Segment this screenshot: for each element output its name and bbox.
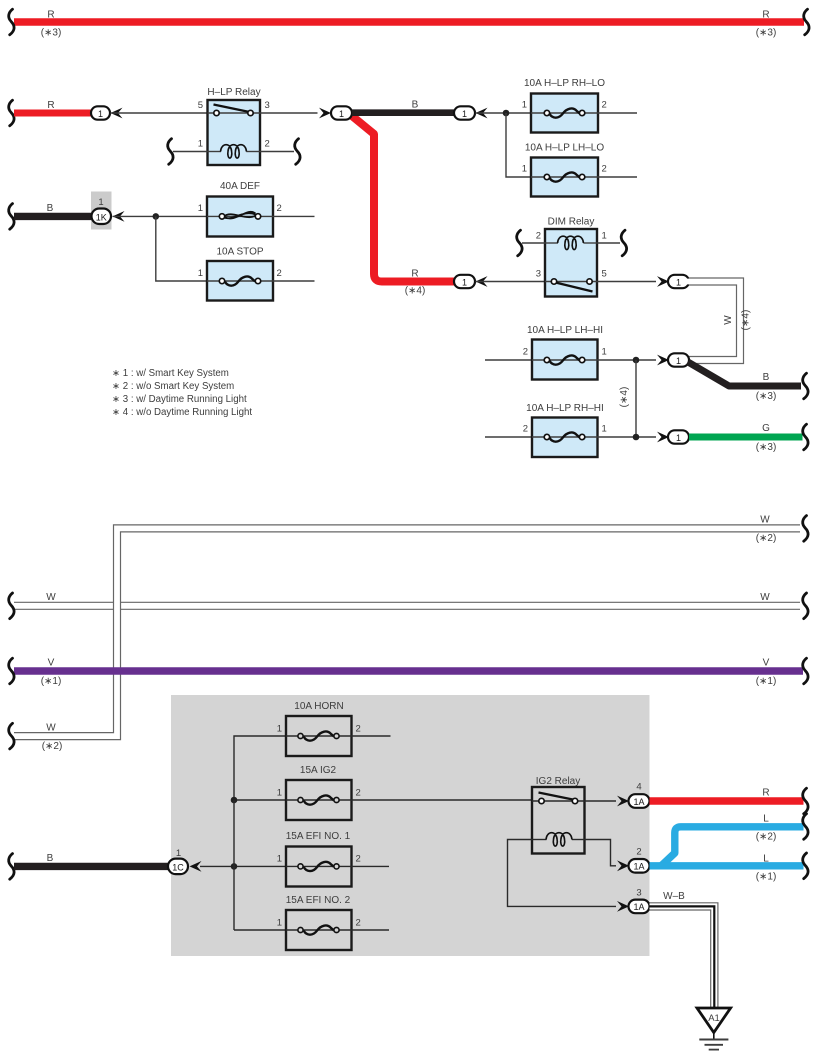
connector arrow female left 1C [190, 861, 202, 872]
wire B thick black to headlamp fuses [352, 100, 455, 113]
wire V (*1) purple full-width [9, 658, 808, 684]
fuse 10A H-LP RH-HI [532, 418, 598, 458]
svg-text:1: 1 [522, 164, 527, 175]
svg-text:W: W [46, 592, 56, 603]
svg-text:1: 1 [522, 100, 527, 111]
svg-text:3: 3 [636, 887, 641, 898]
svg-text:L: L [763, 854, 769, 865]
svg-text:1: 1 [462, 277, 467, 287]
wire from DIM coil pin 1 [597, 230, 627, 256]
wire L (*1) blue out [650, 862, 804, 869]
label L (*1) [756, 854, 777, 883]
svg-text:∗ 4 : w/o Daytime Running Ligh: ∗ 4 : w/o Daytime Running Light [112, 407, 252, 418]
svg-text:2: 2 [602, 100, 607, 111]
connector arrow male right pin 4 [617, 796, 629, 807]
svg-text:W: W [723, 315, 734, 325]
DIM relay coil [545, 236, 597, 249]
brace L (*1) end [803, 853, 808, 879]
svg-text:5: 5 [198, 100, 203, 111]
svg-text:(∗4): (∗4) [405, 286, 426, 297]
wire B (*3) thick black diagonal out [688, 362, 808, 402]
wire coil pin to connector 2 [585, 840, 617, 866]
connector arrow female left DIM3 [476, 276, 488, 287]
svg-text:1: 1 [676, 433, 681, 443]
fuse 10A H-LP LH-HI [532, 340, 598, 380]
svg-text:1K: 1K [96, 212, 107, 222]
svg-text:10A H–LP LH–HI: 10A H–LP LH–HI [527, 325, 603, 336]
wire from EFI1 pin 2 [352, 865, 390, 867]
svg-text:1: 1 [676, 277, 681, 287]
svg-text:V: V [763, 658, 770, 669]
connector arrow female left [476, 108, 488, 119]
svg-text:1: 1 [339, 109, 344, 119]
wire W (*2) white riser and top run [14, 528, 800, 736]
wire to H-LP relay pin 5 [111, 112, 209, 114]
wire from H-LP relay pin 3 [260, 112, 318, 114]
wire coil pin to connector 3 [508, 840, 617, 907]
connector 1A (pin 3) [629, 900, 650, 914]
wire bus to EFI2 pin 1 [234, 929, 286, 931]
connector 1 headlamp LH-HI [668, 353, 689, 366]
brace W (*2) bottom left end [9, 723, 14, 749]
wire from H-LP relay coil pin 2 [260, 139, 300, 165]
svg-text:(∗3): (∗3) [756, 28, 777, 39]
wire R into H-LP relay pin 5 (red stub) [9, 100, 92, 126]
connector arrow male right [319, 108, 331, 119]
svg-text:2: 2 [356, 788, 361, 799]
wire to junction [476, 112, 532, 114]
brace W (*2) top right end [803, 516, 808, 542]
connector arrow male right DIM5 [657, 276, 669, 287]
svg-text:2: 2 [265, 139, 270, 150]
svg-text:5: 5 [602, 269, 607, 280]
label V (*1) left [41, 658, 62, 688]
connector arrow male right pin 2 [617, 860, 629, 871]
wire from DEF pin 2 [273, 215, 315, 217]
svg-text:4: 4 [636, 782, 641, 793]
connector 1A (pin 4) [629, 794, 650, 808]
ground symbol [699, 1033, 728, 1050]
fuse 15A EFI NO. 2 [286, 910, 352, 950]
svg-text:10A STOP: 10A STOP [216, 247, 263, 258]
junction node bus EFI1 [231, 863, 238, 870]
wire to LH-HI pin 2 [485, 359, 532, 361]
connector 1 before fuse RH-LO [454, 106, 475, 119]
wire from LH-LO pin 2 [598, 176, 637, 178]
wire IG2 relay switch out [585, 800, 617, 802]
svg-text:(∗2): (∗2) [42, 741, 63, 752]
junction node bus IG2 [231, 797, 238, 804]
wire junction down to 10A STOP [156, 216, 207, 281]
svg-text:2: 2 [356, 918, 361, 929]
connector arrow male right RH-HI [657, 432, 669, 443]
wire G (*3) green out [689, 423, 808, 453]
DIM relay switch contacts [545, 279, 597, 292]
svg-text:B: B [412, 100, 419, 111]
connector arrow male right pin 3 [617, 901, 629, 912]
wire W (*4) white double-line U [687, 282, 740, 361]
wire from RH-LO pin 2 [598, 112, 637, 114]
svg-text:B: B [763, 372, 770, 383]
svg-text:1: 1 [602, 424, 607, 435]
svg-text:1A: 1A [633, 797, 644, 807]
svg-text:10A HORN: 10A HORN [294, 701, 343, 712]
fuse 15A IG2 [286, 780, 352, 820]
svg-text:A1: A1 [708, 1013, 720, 1024]
wire bus to EFI1 pin 1 [200, 865, 286, 867]
IG2 relay coil [532, 833, 585, 846]
svg-text:2: 2 [636, 846, 641, 857]
wire to H-LP relay coil pin 1 [168, 139, 208, 165]
connector 1 headlamp RH-HI [668, 430, 689, 443]
connector 1 after H-LP pin 3 [331, 106, 352, 119]
connector 1 on DIM pin 3 wire [454, 275, 475, 288]
svg-text:3: 3 [265, 100, 270, 111]
svg-text:10A H–LP RH–HI: 10A H–LP RH–HI [526, 403, 604, 414]
svg-text:IG2 Relay: IG2 Relay [536, 776, 580, 787]
wire junction down to LH-LO fuse [506, 113, 531, 177]
svg-text:2: 2 [277, 268, 282, 279]
svg-text:10A H–LP LH–LO: 10A H–LP LH–LO [525, 143, 605, 154]
wire from LH-HI pin 1 [598, 359, 657, 361]
fuse 10A H-LP RH-LO [531, 94, 598, 133]
junction node DEF/STOP [153, 213, 160, 220]
svg-text:DIM Relay: DIM Relay [548, 217, 595, 228]
label V (*1) right [756, 658, 777, 688]
wire R (*3) battery feed, top horizontal red [9, 9, 809, 35]
wire L (*2) blue branch up [661, 827, 804, 866]
svg-text:R: R [411, 269, 418, 280]
wire to DIM relay pin 3 [476, 281, 546, 283]
wire W-B white/black stripe to ground [650, 906, 715, 1008]
wire from STOP pin 2 [273, 280, 315, 282]
svg-text:W: W [760, 515, 770, 526]
fuse 40A DEF [207, 197, 273, 237]
svg-text:2: 2 [356, 724, 361, 735]
svg-text:(∗1): (∗1) [756, 676, 777, 687]
legend notes [112, 368, 252, 418]
label L (*2) [756, 813, 777, 842]
wire from EFI2 pin 2 [352, 929, 390, 931]
connector arrow female left 1K [113, 211, 125, 222]
svg-text:W–B: W–B [663, 891, 685, 902]
svg-text:R: R [47, 10, 54, 21]
svg-text:W: W [760, 592, 770, 603]
wire to RH-HI pin 2 [485, 436, 532, 438]
svg-text:1: 1 [98, 109, 103, 119]
relay DIM box [545, 229, 597, 297]
svg-text:1: 1 [462, 109, 467, 119]
svg-text:B: B [47, 853, 54, 864]
svg-text:(∗4): (∗4) [619, 387, 630, 408]
label W (*2) bottom left [42, 723, 63, 753]
svg-text:H–LP Relay: H–LP Relay [207, 87, 260, 98]
svg-text:R: R [762, 787, 769, 798]
bus vertical [233, 800, 235, 930]
svg-text:(∗1): (∗1) [41, 676, 62, 687]
svg-text:1: 1 [176, 848, 181, 859]
svg-text:(∗3): (∗3) [756, 391, 777, 402]
brace L (*2) end [803, 814, 808, 840]
label R (*4) on red wire [405, 269, 426, 297]
wire W middle white full-width [9, 593, 808, 619]
svg-text:1: 1 [602, 347, 607, 358]
wire R red ignition out [650, 787, 809, 814]
wire 1K to fuses [113, 215, 208, 217]
svg-text:B: B [47, 203, 54, 214]
svg-text:(∗2): (∗2) [756, 832, 777, 843]
svg-text:2: 2 [356, 854, 361, 865]
wire B thick black main feed [9, 853, 170, 879]
svg-text:1A: 1A [633, 902, 644, 912]
svg-text:15A EFI NO. 1: 15A EFI NO. 1 [286, 831, 351, 842]
svg-text:2: 2 [277, 203, 282, 214]
svg-text:1C: 1C [172, 862, 184, 872]
connector 1 on H-LP pin5 wire [91, 106, 110, 119]
wire from DIM pin 5 [597, 281, 656, 283]
H-LP relay coil [208, 145, 261, 158]
wire bus to IG2 pin 1 [234, 799, 286, 801]
svg-text:R: R [47, 100, 54, 111]
svg-text:W: W [46, 723, 56, 734]
svg-text:1: 1 [277, 854, 282, 865]
wire B thick black into connector 1K [9, 203, 94, 229]
wire (*4) junction link down [635, 360, 637, 437]
connector 1 after DIM pin 5 [668, 275, 689, 288]
wire from HORN pin 2 [352, 735, 391, 737]
connector arrow female left, H-LP pin5 [111, 108, 123, 119]
svg-text:15A IG2: 15A IG2 [300, 765, 337, 776]
svg-text:L: L [763, 813, 769, 824]
connector 1A (pin 2) [629, 859, 650, 873]
svg-text:1: 1 [277, 724, 282, 735]
relay IG2 box [532, 787, 585, 854]
junction node LH-HI [633, 357, 640, 364]
svg-text:(∗1): (∗1) [756, 872, 777, 883]
svg-text:2: 2 [523, 347, 528, 358]
label R (*3) top-right [756, 10, 777, 39]
label W (*2) top right [756, 515, 777, 545]
svg-text:40A DEF: 40A DEF [220, 181, 260, 192]
junction node RH-HI [633, 434, 640, 441]
svg-text:3: 3 [536, 269, 541, 280]
svg-text:1: 1 [602, 231, 607, 242]
wire to DIM coil pin 2 [517, 230, 545, 256]
svg-text:V: V [48, 658, 55, 669]
svg-text:G: G [762, 423, 770, 434]
wire thick red (*4) down to DIM relay pin 3 [349, 114, 456, 282]
svg-text:(∗2): (∗2) [756, 533, 777, 544]
wire IG2 fuse to IG2 relay [352, 799, 533, 801]
svg-text:1: 1 [98, 197, 103, 208]
engine room junction block box [171, 695, 650, 956]
svg-text:1A: 1A [633, 862, 644, 872]
connector arrow male right LH-HI [657, 355, 669, 366]
svg-text:∗ 2 : w/o Smart Key System: ∗ 2 : w/o Smart Key System [112, 381, 234, 392]
svg-text:2: 2 [523, 424, 528, 435]
svg-text:R: R [762, 10, 769, 21]
svg-text:1: 1 [198, 268, 203, 279]
svg-text:1: 1 [277, 788, 282, 799]
svg-text:1: 1 [277, 918, 282, 929]
fuse 10A STOP [207, 261, 273, 301]
connector 1K highlight [91, 192, 112, 230]
svg-text:∗ 3 : w/ Daytime Running Light: ∗ 3 : w/ Daytime Running Light [112, 394, 247, 405]
connector 1K [92, 209, 112, 225]
connector 1C [168, 859, 188, 875]
svg-text:1: 1 [198, 139, 203, 150]
fuse 10A HORN [286, 716, 352, 756]
label R (*3) top-left [41, 10, 62, 39]
fuse 15A EFI NO. 1 [286, 847, 352, 887]
svg-text:(∗3): (∗3) [41, 28, 62, 39]
svg-text:15A EFI NO. 2: 15A EFI NO. 2 [286, 895, 351, 906]
svg-text:2: 2 [602, 164, 607, 175]
svg-text:2: 2 [536, 231, 541, 242]
svg-text:1: 1 [676, 356, 681, 366]
wire bus to HORN pin 1 [234, 736, 286, 800]
wire from RH-HI pin 1 [598, 436, 657, 438]
svg-text:1: 1 [198, 203, 203, 214]
H-LP relay switch contacts [208, 105, 261, 116]
IG2 relay switch contacts [532, 793, 585, 804]
junction node fuse feed [503, 110, 510, 117]
svg-text:10A H–LP RH–LO: 10A H–LP RH–LO [524, 78, 605, 89]
svg-text:(∗4): (∗4) [741, 310, 752, 331]
relay H-LP box [208, 100, 261, 165]
svg-text:(∗3): (∗3) [756, 442, 777, 453]
ground point A1 triangle [697, 1008, 731, 1033]
svg-text:∗ 1 : w/ Smart Key System: ∗ 1 : w/ Smart Key System [112, 368, 229, 379]
fuse 10A H-LP LH-LO [531, 158, 598, 197]
